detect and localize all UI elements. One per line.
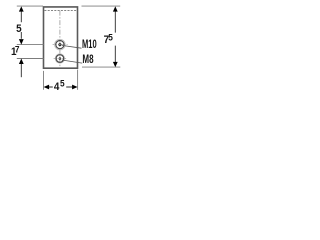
dimension line 75 (right, vertical) [114,11,116,62]
hidden edge dashed line [44,10,77,12]
part outline rectangle [44,7,78,68]
dimension line 17 tail [20,64,22,77]
M8 hole circle [56,55,64,63]
M10 hole crosshair [53,44,68,46]
vertical centerline [59,11,61,67]
arrowhead up (dim 17 bottom side) [19,59,24,65]
extension line top right [82,5,121,7]
arrowhead up (dim 75 top) [113,6,118,11]
leader line M8 [62,60,82,63]
extension line M10 center left [17,44,44,46]
M10 hole circle [56,41,64,49]
svg-text:M10: M10 [82,38,97,51]
svg-text:5: 5 [16,23,22,35]
M8 hole crosshair [54,58,67,60]
svg-text:4: 4 [54,82,60,94]
M8 thread circle [55,54,64,63]
arrowhead left (dim 45) [44,85,50,90]
arrowhead up (dim 5 top) [19,6,24,11]
svg-text:M8: M8 [82,54,93,67]
svg-text:5: 5 [60,78,65,89]
svg-text:5: 5 [108,32,113,43]
extension line bottom right of 45 dim [77,70,79,90]
M10 thread circle [55,39,66,50]
dimension line 5 (left, vertical) [20,11,22,39]
label 45 (4.5) [54,78,65,93]
extension line M8 center left [17,58,44,60]
dimension line 45 (bottom, horizontal) [49,86,73,88]
extension line bottom left of 45 dim [43,71,45,90]
svg-text:7: 7 [15,44,20,55]
arrowhead down (dim 5 bottom) [19,39,24,45]
arrowhead right (dim 45) [72,85,78,90]
leader line M10 [62,45,82,48]
label 17 (1.7) [11,44,20,58]
arrowhead down (dim 75 bottom) [113,62,118,67]
M10 center dot [58,43,61,46]
label 75 (7.5) [104,32,113,46]
M8 center dot [59,57,62,60]
extension line top left [17,5,43,7]
extension line bottom right [82,66,120,68]
